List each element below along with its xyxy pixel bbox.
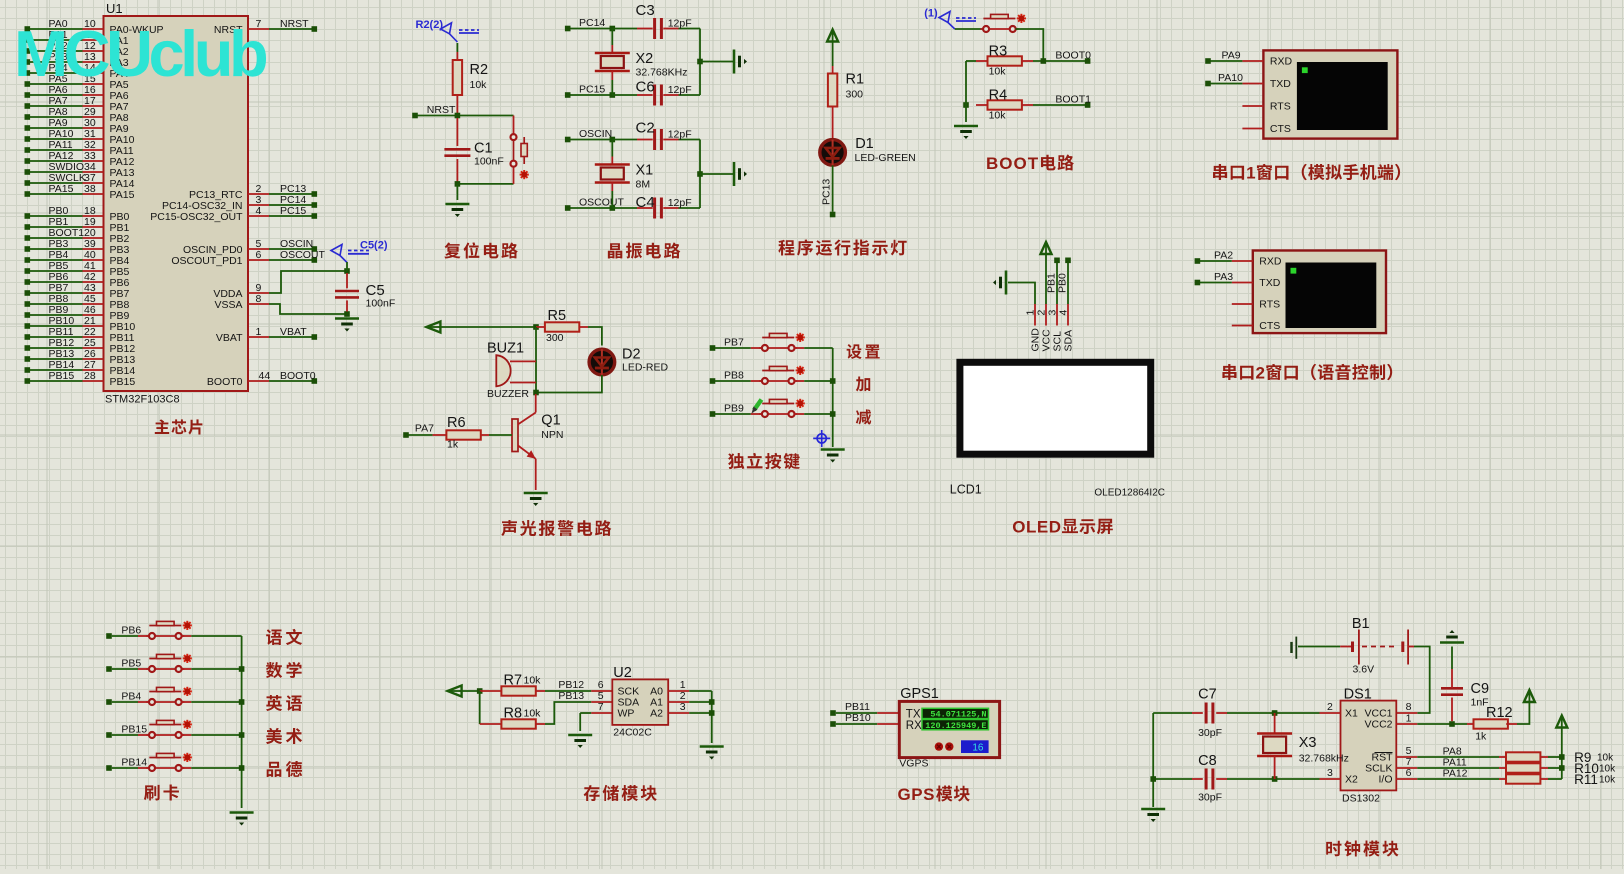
svg-text:10k: 10k [1597, 753, 1614, 764]
svg-text:PA10: PA10 [1218, 72, 1243, 84]
svg-text:PA2: PA2 [1214, 250, 1233, 262]
svg-text:PA12: PA12 [1443, 768, 1468, 780]
svg-text:1k: 1k [1475, 731, 1487, 743]
svg-text:PB0: PB0 [1057, 273, 1069, 293]
svg-text:2: 2 [1327, 701, 1333, 713]
svg-text:X2: X2 [1345, 774, 1358, 786]
svg-text:PB9: PB9 [724, 403, 744, 415]
svg-text:54.071125,N: 54.071125,N [930, 710, 986, 720]
svg-text:C6: C6 [636, 79, 655, 96]
svg-text:1: 1 [256, 326, 262, 338]
svg-text:28: 28 [84, 370, 96, 382]
svg-text:Q1: Q1 [541, 413, 560, 429]
svg-text:X2: X2 [636, 51, 654, 67]
svg-text:PB15: PB15 [121, 724, 147, 736]
svg-text:VBAT: VBAT [280, 326, 307, 338]
svg-text:PA3: PA3 [1214, 271, 1233, 283]
svg-text:(1): (1) [924, 8, 938, 20]
svg-text:10k: 10k [470, 79, 488, 91]
svg-text:RTS: RTS [1270, 101, 1291, 113]
svg-text:12pF: 12pF [668, 197, 692, 209]
svg-text:16: 16 [972, 743, 984, 754]
svg-text:NRST: NRST [280, 18, 309, 30]
svg-text:LED-RED: LED-RED [622, 362, 669, 374]
svg-text:OSCOUT: OSCOUT [280, 249, 326, 261]
svg-text:OLED12864I2C: OLED12864I2C [1094, 488, 1165, 499]
svg-text:OSCIN: OSCIN [579, 128, 612, 140]
svg-text:6: 6 [256, 249, 262, 261]
svg-text:BOOT0: BOOT0 [207, 376, 243, 388]
svg-text:G: G [898, 785, 911, 804]
svg-text:10k: 10k [524, 675, 542, 687]
svg-text:BUZZER: BUZZER [487, 388, 529, 400]
svg-text:C7: C7 [1198, 687, 1217, 703]
svg-text:CTS: CTS [1259, 320, 1280, 332]
svg-text:R8: R8 [504, 706, 523, 722]
svg-text:I/O: I/O [1378, 774, 1392, 786]
svg-text:PA9: PA9 [1222, 50, 1241, 62]
svg-text:24C02C: 24C02C [613, 727, 652, 739]
svg-text:BUZ1: BUZ1 [487, 341, 524, 357]
svg-text:S: S [923, 785, 934, 804]
svg-text:MCUclub: MCUclub [14, 17, 267, 90]
svg-text:NPN: NPN [541, 429, 563, 441]
svg-text:4: 4 [1058, 310, 1070, 316]
svg-text:1: 1 [1406, 713, 1412, 725]
svg-text:PA7: PA7 [415, 423, 434, 435]
svg-text:LED-GREEN: LED-GREEN [855, 152, 916, 164]
svg-text:PB8: PB8 [724, 370, 744, 382]
svg-text:PB7: PB7 [724, 337, 744, 349]
svg-text:30pF: 30pF [1198, 727, 1222, 739]
svg-text:120.125949,E: 120.125949,E [925, 721, 986, 731]
svg-text:A2: A2 [650, 708, 663, 720]
svg-text:R7: R7 [504, 673, 523, 689]
svg-text:D2: D2 [622, 347, 641, 363]
svg-text:DS1302: DS1302 [1342, 793, 1380, 805]
svg-text:WP: WP [618, 708, 635, 720]
svg-text:PC15: PC15 [579, 84, 605, 96]
svg-text:R2(2): R2(2) [416, 19, 444, 31]
svg-text:PB14: PB14 [121, 757, 147, 769]
svg-text:X1: X1 [636, 163, 654, 179]
svg-text:12pF: 12pF [668, 84, 692, 96]
svg-text:C4: C4 [636, 194, 655, 211]
svg-text:PB6: PB6 [121, 625, 141, 637]
svg-text:100nF: 100nF [366, 298, 396, 310]
svg-text:E: E [1037, 518, 1048, 537]
svg-text:C8: C8 [1198, 753, 1217, 769]
svg-text:PC14: PC14 [579, 17, 605, 29]
svg-text:RXD: RXD [1259, 256, 1282, 268]
svg-text:D: D [1049, 518, 1061, 537]
svg-text:SDA: SDA [1063, 330, 1075, 352]
svg-text:8: 8 [256, 293, 262, 305]
svg-text:RXD: RXD [1270, 56, 1293, 68]
svg-text:B1: B1 [1352, 616, 1370, 632]
svg-text:C1: C1 [474, 141, 493, 157]
svg-text:PB4: PB4 [121, 691, 141, 703]
svg-text:10k: 10k [524, 708, 542, 720]
svg-text:D1: D1 [855, 136, 874, 152]
svg-text:U2: U2 [613, 665, 632, 681]
svg-text:32.768kHz: 32.768kHz [1299, 753, 1349, 765]
svg-text:O: O [1012, 518, 1025, 537]
svg-text:OSCOUT_PD1: OSCOUT_PD1 [171, 255, 242, 267]
svg-text:B: B [986, 154, 998, 173]
svg-text:LCD1: LCD1 [950, 483, 982, 497]
svg-text:STM32F103C8: STM32F103C8 [105, 394, 180, 406]
svg-text:OSCOUT: OSCOUT [579, 197, 625, 209]
svg-text:8: 8 [1406, 701, 1412, 713]
svg-text:PA15: PA15 [49, 183, 74, 195]
svg-text:TX: TX [906, 709, 921, 721]
svg-text:10k: 10k [989, 110, 1007, 122]
svg-text:R12: R12 [1486, 705, 1513, 721]
svg-text:2: 2 [1256, 364, 1265, 383]
svg-text:12pF: 12pF [668, 18, 692, 30]
svg-text:T: T [1028, 154, 1039, 173]
svg-text:30pF: 30pF [1198, 792, 1222, 804]
svg-text:PB13: PB13 [558, 690, 584, 702]
svg-text:PA15: PA15 [110, 189, 135, 201]
svg-text:RTS: RTS [1259, 299, 1280, 311]
svg-text:BOOT0: BOOT0 [1055, 50, 1091, 62]
svg-text:NRST: NRST [427, 104, 456, 116]
svg-text:R5: R5 [548, 308, 567, 324]
svg-text:O: O [1014, 154, 1027, 173]
svg-text:VSSA: VSSA [214, 299, 242, 311]
svg-text:VGPS: VGPS [899, 758, 928, 770]
svg-text:1k: 1k [447, 439, 459, 451]
svg-text:3: 3 [1327, 767, 1333, 779]
svg-text:R4: R4 [989, 88, 1008, 104]
svg-text:12pF: 12pF [668, 129, 692, 141]
svg-text:8M: 8M [636, 179, 651, 191]
svg-text:R3: R3 [989, 44, 1008, 60]
svg-text:P: P [911, 785, 922, 804]
svg-text:BOOT1: BOOT1 [1055, 94, 1091, 106]
svg-text:44: 44 [259, 370, 271, 382]
svg-text:U1: U1 [106, 1, 123, 16]
svg-text:PC15: PC15 [280, 205, 306, 217]
svg-text:O: O [999, 154, 1012, 173]
svg-text:3.6V: 3.6V [1353, 664, 1375, 676]
svg-text:10k: 10k [1599, 775, 1616, 786]
svg-text:VCC2: VCC2 [1364, 719, 1392, 731]
svg-text:10k: 10k [989, 66, 1007, 78]
svg-text:R6: R6 [447, 415, 466, 431]
svg-text:PB5: PB5 [121, 658, 141, 670]
svg-text:X3: X3 [1299, 735, 1317, 751]
svg-text:32.768KHz: 32.768KHz [636, 67, 688, 79]
svg-text:R11: R11 [1574, 772, 1598, 787]
svg-text:PC15-OSC32_OUT: PC15-OSC32_OUT [150, 211, 243, 223]
svg-text:RX: RX [906, 720, 922, 732]
svg-text:PB15: PB15 [49, 370, 75, 382]
svg-text:GPS1: GPS1 [900, 686, 939, 702]
svg-text:R2: R2 [470, 62, 489, 78]
svg-text:DS1: DS1 [1344, 687, 1372, 703]
svg-text:38: 38 [84, 183, 96, 195]
svg-text:4: 4 [256, 205, 262, 217]
svg-text:3: 3 [680, 701, 686, 713]
svg-text:X1: X1 [1345, 708, 1358, 720]
svg-text:C5(2): C5(2) [360, 240, 388, 252]
svg-text:R1: R1 [846, 72, 865, 88]
svg-text:PC13: PC13 [821, 179, 833, 205]
svg-text:C3: C3 [636, 2, 655, 19]
svg-text:1: 1 [1246, 164, 1255, 183]
svg-text:L: L [1026, 518, 1036, 537]
svg-text:7: 7 [598, 701, 604, 713]
svg-text:CTS: CTS [1270, 123, 1291, 135]
svg-text:TXD: TXD [1270, 78, 1291, 90]
svg-text:BOOT0: BOOT0 [280, 370, 316, 382]
svg-text:100nF: 100nF [474, 156, 504, 168]
svg-text:10k: 10k [1599, 764, 1616, 775]
svg-text:PB15: PB15 [110, 376, 136, 388]
svg-text:300: 300 [546, 332, 564, 344]
svg-text:C2: C2 [636, 120, 655, 137]
svg-text:C5: C5 [366, 282, 385, 299]
svg-text:TXD: TXD [1259, 277, 1280, 289]
svg-text:VBAT: VBAT [216, 332, 243, 344]
svg-text:300: 300 [846, 89, 864, 101]
svg-text:C9: C9 [1471, 681, 1490, 697]
